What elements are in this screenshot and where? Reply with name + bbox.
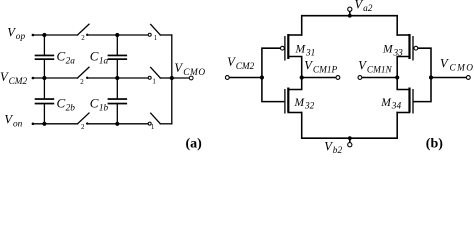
svg-text:b2: b2 <box>333 146 343 155</box>
svg-text:CM2: CM2 <box>9 77 28 87</box>
svg-text:CMO: CMO <box>450 64 474 74</box>
svg-text:1: 1 <box>151 123 155 131</box>
svg-text:CM2: CM2 <box>236 62 255 72</box>
svg-text:(b): (b) <box>426 137 443 152</box>
svg-text:2: 2 <box>81 34 85 42</box>
svg-text:33: 33 <box>393 48 404 58</box>
svg-text:1: 1 <box>152 78 156 86</box>
svg-text:M: M <box>294 97 306 109</box>
svg-text:CM1N: CM1N <box>367 66 393 76</box>
svg-text:op: op <box>16 32 26 42</box>
svg-text:34: 34 <box>391 102 402 112</box>
svg-text:1: 1 <box>154 34 158 42</box>
svg-text:M: M <box>380 97 392 109</box>
svg-text:31: 31 <box>305 48 315 58</box>
svg-text:on: on <box>13 120 23 130</box>
svg-text:C: C <box>57 95 66 110</box>
svg-text:M: M <box>382 44 394 56</box>
svg-text:2: 2 <box>81 123 85 131</box>
svg-text:(a): (a) <box>186 137 203 152</box>
svg-text:32: 32 <box>304 102 315 112</box>
svg-text:CMO: CMO <box>183 68 205 78</box>
svg-text:CM1P: CM1P <box>313 66 338 76</box>
svg-text:2: 2 <box>80 78 84 86</box>
svg-text:M: M <box>295 44 307 56</box>
svg-text:2a: 2a <box>66 57 76 67</box>
svg-text:C: C <box>90 95 99 110</box>
svg-text:2b: 2b <box>66 103 76 113</box>
svg-text:V: V <box>440 57 449 71</box>
svg-text:a2: a2 <box>363 4 373 14</box>
svg-text:1b: 1b <box>99 103 109 113</box>
svg-text:V: V <box>174 61 183 75</box>
svg-text:1a: 1a <box>99 57 109 67</box>
svg-text:C: C <box>57 49 66 64</box>
svg-text:C: C <box>90 49 99 64</box>
